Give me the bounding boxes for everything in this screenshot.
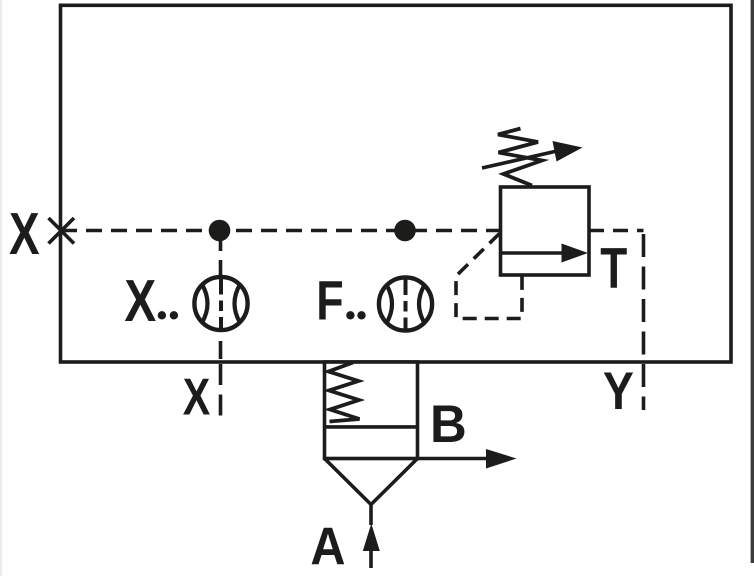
- svg-text:X: X: [124, 268, 156, 334]
- svg-text:Y: Y: [603, 361, 634, 421]
- pilot line X (dashed horizontal main pilot line): [61, 229, 500, 233]
- label X.. (orifice designation): [124, 268, 178, 334]
- main cartridge valve body: [325, 362, 418, 459]
- relief valve adjustable spring: [498, 129, 542, 186]
- spring adjustment arrow: [482, 141, 583, 168]
- orifice X.. (nozzle symbol): [194, 275, 247, 331]
- wire: dashed stub of port X below enclosure: [219, 364, 223, 416]
- main valve internal line: [325, 425, 418, 429]
- svg-text:B: B: [430, 395, 467, 454]
- pilot relief valve body (square): [501, 187, 590, 275]
- pilot line to tank T / port Y (dashed): [589, 229, 644, 233]
- label F.. (orifice designation): [316, 269, 365, 332]
- port A line with flow arrow: [363, 505, 380, 569]
- port B flow arrow: [418, 449, 517, 469]
- svg-text:X: X: [183, 367, 210, 426]
- svg-text:X: X: [9, 202, 40, 268]
- enclosure (valve cover housing outline): [61, 5, 732, 362]
- main poppet (cone): [325, 459, 418, 505]
- orifice F.. (nozzle symbol): [379, 276, 432, 332]
- svg-text:F: F: [316, 269, 343, 332]
- wire: dashed vertical line to port Y: [642, 234, 646, 410]
- page edge shading (decorative): [0, 0, 2, 576]
- junction dot at F.. orifice node: [394, 220, 416, 242]
- vertical pilot line through X.. orifice down to port X: [219, 233, 223, 362]
- svg-text:A: A: [310, 517, 345, 576]
- main valve spring: [329, 363, 360, 422]
- port X plug cross symbol: [49, 218, 75, 244]
- relief valve flow arrow to T: [501, 244, 589, 263]
- relief valve drain path (dashed): [456, 234, 522, 319]
- junction dot at X.. orifice node: [209, 220, 231, 242]
- svg-text:T: T: [600, 236, 627, 300]
